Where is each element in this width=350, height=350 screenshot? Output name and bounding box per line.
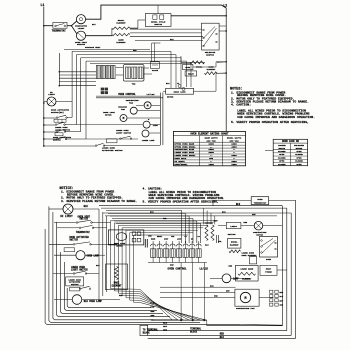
svg-text:CONVECTION FAN: CONVECTION FAN [236,307,255,310]
svg-text:M: M [245,296,247,300]
svg-text:CAN CAUSE IMPROPER AND DANGERO: CAN CAUSE IMPROPER AND DANGEROUS OPERATI… [237,115,315,119]
svg-text:LIMIT: LIMIT [48,93,55,96]
svg-text:OVEN: OVEN [185,66,191,69]
svg-text:SURFACE UNIT: SURFACE UNIT [85,46,101,49]
svg-text:BLOCK: BLOCK [190,330,198,333]
svg-text:MOTOR: MOTOR [256,233,263,236]
svg-text:ELEMENT: ELEMENT [242,278,252,281]
svg-text:OVEN ELEMENT RATING CHART: OVEN ELEMENT RATING CHART [190,133,229,136]
svg-text:DOOR LOCK: DOOR LOCK [174,91,187,94]
svg-text:ELEMENT: ELEMENT [112,284,122,287]
svg-text:THERMOSTAT: THERMOSTAT [76,231,90,234]
svg-text:BAKE: BAKE [151,238,155,241]
svg-text:THERMOSTAT: THERMOSTAT [52,29,66,32]
svg-text:FAN: FAN [171,235,174,238]
svg-text:BROIL: BROIL [157,236,162,238]
svg-text:WH: WH [191,239,193,241]
svg-text:CLOCK: CLOCK [152,69,159,72]
svg-text:SWITCH: SWITCH [71,283,79,286]
svg-text:L1/L2K: L1/L2K [147,93,156,96]
svg-text:PROBE: PROBE [265,270,272,273]
svg-text:MOTOR: MOTOR [167,95,174,98]
svg-text:ELEMENT: ELEMENT [207,68,216,71]
svg-text:RELAY: RELAY [188,73,195,76]
svg-text:4. CAUTION:: 4. CAUTION: [231,103,251,107]
svg-text:RED: RED [163,329,168,332]
svg-text:5. VERIFY PROPER OPERATION AFT: 5. VERIFY PROPER OPERATION AFTER SERVICI… [231,120,309,124]
svg-text:BLK: BLK [220,336,225,339]
svg-text:DOOR LOCK SW: DOOR LOCK SW [282,140,299,143]
svg-text:HI LIMIT: HI LIMIT [60,215,73,218]
svg-text:SWITCH: SWITCH [69,238,78,241]
svg-text:OPEN: OPEN [297,163,303,166]
svg-text:BAKE/BROIL: BAKE/BROIL [174,163,188,166]
svg-text:BLK OVEN LAMP: BLK OVEN LAMP [84,300,103,303]
svg-text:BLK: BLK [236,203,241,206]
svg-text:LIGHT SWITCH: LIGHT SWITCH [71,269,88,272]
svg-text:THERMOSTAT: THERMOSTAT [254,201,267,204]
svg-text:OVEN: OVEN [266,258,272,261]
svg-text:BLK: BLK [84,205,89,208]
svg-text:3. SERVICER PLEASE RETURN DIAG: 3. SERVICER PLEASE RETURN DIAGRAM TO RAN… [61,200,137,203]
svg-text:SWITCH: SWITCH [206,53,214,56]
svg-text:ELEMENT: ELEMENT [116,21,126,24]
svg-text:SWITCH: SWITCH [228,233,237,236]
svg-text:CLOSED: CLOSED [278,163,286,166]
svg-text:SWITCH: SWITCH [80,218,89,221]
svg-text:ELEMENT: ELEMENT [230,244,239,247]
svg-text:LAMP: LAMP [153,124,159,127]
svg-text:LOWER LAMP: LOWER LAMP [142,139,156,142]
svg-text:5. VERIFY PROPER OPERATION AFT: 5. VERIFY PROPER OPERATION AFTER SERVICI… [143,200,219,203]
svg-text:OVEN CONTROL: OVEN CONTROL [168,268,188,271]
svg-text:ELEMENT: ELEMENT [116,41,126,44]
svg-text:BLOCK: BLOCK [143,331,151,334]
svg-text:1800: 1800 [231,163,237,166]
svg-text:SWITCH: SWITCH [154,23,162,26]
svg-text:OVEN CONTROL: OVEN CONTROL [118,93,136,96]
svg-text:LIGHT SWITCH: LIGHT SWITCH [116,132,132,135]
svg-text:L1/L2K: L1/L2K [200,268,209,271]
svg-text:MOTOR: MOTOR [105,114,112,117]
svg-text:SWITCH(ES): SWITCH(ES) [51,111,64,114]
svg-text:LIGHT: LIGHT [78,27,85,30]
svg-text:LOWER BAKE: LOWER BAKE [240,267,254,270]
svg-text:ACTIVATED SWITCH: ACTIVATED SWITCH [102,149,123,152]
svg-text:LB: LB [198,236,200,238]
svg-text:LT: LT [185,236,187,238]
svg-text:1200: 1200 [209,163,215,166]
svg-text:LAMPS: LAMPS [230,225,237,228]
svg-text:L1: L1 [41,3,45,7]
